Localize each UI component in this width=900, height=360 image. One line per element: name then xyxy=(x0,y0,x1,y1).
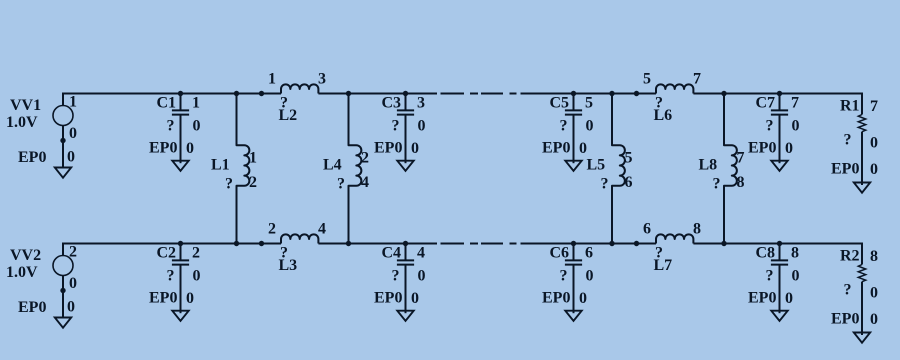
svg-text:L4: L4 xyxy=(323,157,342,174)
resistor R1 xyxy=(858,93,865,186)
junction dot L4 bottom xyxy=(346,241,351,246)
wire top rail left segment xyxy=(63,93,281,95)
inductor L5 xyxy=(612,94,625,244)
junction dot L1 bottom xyxy=(234,241,239,246)
ground EP0 (C3) xyxy=(397,161,413,171)
svg-text:?: ? xyxy=(225,176,233,193)
junction dot L8 top xyxy=(721,91,726,96)
svg-text:?: ? xyxy=(766,268,774,285)
ground EP0 (C6) xyxy=(565,311,581,321)
wire bottom rail middle segment xyxy=(318,243,437,245)
wire bottom rail right segment 1 xyxy=(521,243,657,245)
svg-text:C1: C1 xyxy=(157,95,177,112)
junction dot C1 on rail xyxy=(178,91,183,96)
resistor R2 xyxy=(858,243,865,336)
svg-text:0: 0 xyxy=(67,149,75,166)
svg-text:2: 2 xyxy=(249,174,257,191)
ground EP0 (VV1) xyxy=(55,168,71,178)
inductor L4 xyxy=(349,94,362,244)
svg-text:7: 7 xyxy=(870,98,878,115)
svg-text:3: 3 xyxy=(417,95,425,112)
svg-text:L1: L1 xyxy=(211,157,230,174)
svg-text:R1: R1 xyxy=(840,98,860,115)
inductor L2 xyxy=(281,84,318,93)
svg-text:0: 0 xyxy=(69,125,77,142)
svg-text:EP0: EP0 xyxy=(748,140,776,157)
svg-text:0: 0 xyxy=(870,135,878,152)
svg-text:0: 0 xyxy=(67,299,75,316)
inductor L3 xyxy=(281,234,318,243)
svg-text:?: ? xyxy=(337,176,345,193)
svg-text:0: 0 xyxy=(411,290,419,307)
ground EP0 (C8) xyxy=(771,311,787,321)
ground EP0 (R2) xyxy=(854,333,870,343)
svg-text:0: 0 xyxy=(785,290,793,307)
svg-text:?: ? xyxy=(392,118,400,135)
svg-text:L5: L5 xyxy=(587,157,606,174)
svg-text:0: 0 xyxy=(579,290,587,307)
junction dot L4 top xyxy=(346,91,351,96)
svg-text:0: 0 xyxy=(193,268,201,285)
svg-text:0: 0 xyxy=(418,268,426,285)
wire bottom rail right segment 2 xyxy=(693,243,862,245)
svg-text:0: 0 xyxy=(579,140,587,157)
svg-text:7: 7 xyxy=(693,71,701,88)
svg-text:R2: R2 xyxy=(840,248,860,265)
inductor L6 xyxy=(656,84,693,93)
capacitor C6 xyxy=(565,244,582,314)
svg-text:?: ? xyxy=(766,118,774,135)
svg-text:6: 6 xyxy=(625,174,633,191)
svg-text:VV1: VV1 xyxy=(10,97,41,114)
svg-text:0: 0 xyxy=(870,161,878,178)
junction dot C3 on rail xyxy=(403,91,408,96)
junction dot C6 on rail xyxy=(571,241,576,246)
svg-text:C4: C4 xyxy=(382,245,402,262)
svg-text:4: 4 xyxy=(417,245,425,262)
svg-text:6: 6 xyxy=(585,245,593,262)
junction dot L5 bottom xyxy=(609,241,614,246)
ground EP0 (VV2) xyxy=(55,318,71,328)
svg-text:C7: C7 xyxy=(756,95,776,112)
svg-text:C6: C6 xyxy=(550,245,570,262)
svg-text:2: 2 xyxy=(268,221,276,238)
junction dot C8 on rail xyxy=(777,241,782,246)
wire bottom rail dashed continuation xyxy=(441,243,517,245)
inductor L1 xyxy=(237,94,250,244)
svg-text:1: 1 xyxy=(249,150,257,167)
svg-text:5: 5 xyxy=(643,71,651,88)
svg-text:0: 0 xyxy=(69,275,77,292)
svg-text:EP0: EP0 xyxy=(374,290,402,307)
junction dot before L3 xyxy=(259,241,264,246)
junction dot C2 on rail xyxy=(178,241,183,246)
ground EP0 (C5) xyxy=(565,161,581,171)
junction dot C4 on rail xyxy=(403,241,408,246)
svg-text:0: 0 xyxy=(792,268,800,285)
svg-text:?: ? xyxy=(713,176,721,193)
svg-text:0: 0 xyxy=(870,311,878,328)
svg-text:0: 0 xyxy=(870,285,878,302)
svg-text:0: 0 xyxy=(411,140,419,157)
junction dot VV2-ground xyxy=(60,288,65,293)
svg-text:EP0: EP0 xyxy=(542,290,570,307)
ground EP0 (C7) xyxy=(771,161,787,171)
svg-text:7: 7 xyxy=(737,150,745,167)
wire top rail right segment 2 xyxy=(693,93,862,95)
svg-text:EP0: EP0 xyxy=(748,290,776,307)
svg-text:6: 6 xyxy=(643,221,651,238)
svg-text:4: 4 xyxy=(318,221,326,238)
wire top rail right segment 1 xyxy=(521,93,657,95)
svg-text:2: 2 xyxy=(192,245,200,262)
capacitor C3 xyxy=(397,94,414,164)
svg-text:C5: C5 xyxy=(550,95,570,112)
svg-text:EP0: EP0 xyxy=(831,311,859,328)
inductor L8 xyxy=(724,94,737,244)
svg-text:0: 0 xyxy=(186,140,194,157)
svg-text:1: 1 xyxy=(268,71,276,88)
svg-text:?: ? xyxy=(601,176,609,193)
svg-text:2: 2 xyxy=(361,150,369,167)
junction dot before L6 xyxy=(634,91,639,96)
svg-text:0: 0 xyxy=(792,118,800,135)
junction dot before L2 xyxy=(259,91,264,96)
svg-text:EP0: EP0 xyxy=(149,290,177,307)
ground EP0 (C4) xyxy=(397,311,413,321)
junction dot L5 top xyxy=(609,91,614,96)
svg-text:5: 5 xyxy=(585,95,593,112)
svg-text:1.0V: 1.0V xyxy=(6,264,38,281)
svg-text:7: 7 xyxy=(791,95,799,112)
svg-text:EP0: EP0 xyxy=(831,161,859,178)
ground EP0 (C1) xyxy=(172,161,188,171)
svg-text:C8: C8 xyxy=(756,245,776,262)
svg-text:0: 0 xyxy=(418,118,426,135)
svg-text:EP0: EP0 xyxy=(374,140,402,157)
svg-text:EP0: EP0 xyxy=(18,299,46,316)
inductor L7 xyxy=(656,234,693,243)
wire bottom rail left segment xyxy=(63,243,281,245)
svg-text:?: ? xyxy=(167,268,175,285)
svg-text:2: 2 xyxy=(69,244,77,261)
voltage source VV1 xyxy=(53,93,73,168)
svg-text:EP0: EP0 xyxy=(542,140,570,157)
ground EP0 (R1) xyxy=(854,183,870,193)
junction dot VV1-ground xyxy=(60,138,65,143)
svg-text:L2: L2 xyxy=(279,107,298,124)
wire top rail middle segment xyxy=(318,93,437,95)
svg-text:0: 0 xyxy=(586,268,594,285)
svg-text:1.0V: 1.0V xyxy=(6,114,38,131)
svg-text:VV2: VV2 xyxy=(10,247,41,264)
junction dot C5 on rail xyxy=(571,91,576,96)
svg-text:1: 1 xyxy=(69,94,77,111)
svg-text:0: 0 xyxy=(186,290,194,307)
ground EP0 (C2) xyxy=(172,311,188,321)
svg-text:L8: L8 xyxy=(699,157,718,174)
capacitor C7 xyxy=(771,94,788,164)
wire top rail dashed continuation xyxy=(441,93,517,95)
svg-text:EP0: EP0 xyxy=(18,149,46,166)
svg-text:C2: C2 xyxy=(157,245,177,262)
capacitor C2 xyxy=(172,244,189,314)
svg-text:EP0: EP0 xyxy=(149,140,177,157)
capacitor C1 xyxy=(172,94,189,164)
svg-text:?: ? xyxy=(167,118,175,135)
junction dot before L7 xyxy=(634,241,639,246)
svg-text:5: 5 xyxy=(625,150,633,167)
voltage source VV2 xyxy=(53,243,73,318)
junction dot C7 on rail xyxy=(777,91,782,96)
svg-text:1: 1 xyxy=(192,95,200,112)
svg-text:L3: L3 xyxy=(279,257,298,274)
junction dot L8 bottom xyxy=(721,241,726,246)
svg-text:4: 4 xyxy=(361,174,369,191)
svg-text:L6: L6 xyxy=(654,107,673,124)
svg-text:C3: C3 xyxy=(382,95,402,112)
svg-text:0: 0 xyxy=(785,140,793,157)
capacitor C5 xyxy=(565,94,582,164)
svg-text:?: ? xyxy=(560,118,568,135)
svg-text:?: ? xyxy=(560,268,568,285)
svg-text:8: 8 xyxy=(791,245,799,262)
svg-text:?: ? xyxy=(844,132,852,149)
svg-text:0: 0 xyxy=(193,118,201,135)
svg-text:?: ? xyxy=(844,282,852,299)
svg-text:L7: L7 xyxy=(654,257,673,274)
junction dot L1 top xyxy=(234,91,239,96)
svg-text:8: 8 xyxy=(693,221,701,238)
capacitor C8 xyxy=(771,244,788,314)
svg-text:8: 8 xyxy=(737,174,745,191)
svg-text:0: 0 xyxy=(586,118,594,135)
svg-text:?: ? xyxy=(392,268,400,285)
capacitor C4 xyxy=(397,244,414,314)
svg-text:3: 3 xyxy=(318,71,326,88)
svg-text:8: 8 xyxy=(870,248,878,265)
